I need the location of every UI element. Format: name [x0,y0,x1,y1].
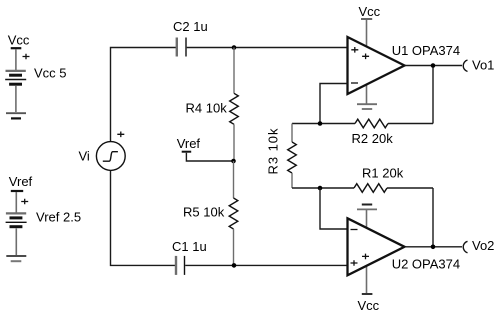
wire top rail (C2 to U1 +in) [187,47,348,49]
svg-text:Vref: Vref [9,174,33,189]
svg-text:Vo2: Vo2 [472,238,494,253]
svg-text:R5 10k: R5 10k [183,205,225,220]
resistor R1 20k [354,184,387,193]
ground (U2 negative supply, inverted) [357,205,377,231]
capacitor C2 1u [177,38,186,57]
battery V1 Vcc 5 [5,54,29,112]
net label Vcc (U1) [359,4,381,19]
junction node top (C2/R4/U1+) [232,45,237,50]
svg-text:R3 10k: R3 10k [266,128,281,175]
junction node Vo1 [431,63,436,68]
terminal bar Vcc (left supply) [11,48,22,70]
junction node Vref (R4/R5) [231,159,236,164]
label C2 1u [173,19,208,34]
wire U2 -in jog [320,188,348,229]
label R1 20k [362,166,404,181]
terminal bar Vref (left supply) [11,191,23,213]
svg-text:Vcc: Vcc [8,33,30,48]
wire bottom rail (C1 to U2 +in) [185,264,347,266]
svg-text:Vo1: Vo1 [472,58,494,73]
label R2 20k [352,131,394,146]
label U1 OPA374 [392,43,460,58]
terminal Vo2 [463,241,467,253]
svg-text:Vcc: Vcc [358,298,380,313]
terminal Vo1 [463,60,467,72]
op-amp U1 OPA374 [348,37,405,94]
svg-text:Vcc 5: Vcc 5 [34,66,67,81]
label R5 10k [183,205,225,220]
label V1 value Vcc 5 [34,66,67,81]
terminal Vref (mid node) [182,152,234,161]
wire U1 -in jog [320,84,348,124]
junction node FB1 (R2/R3/U1-) [318,121,323,126]
op-amp U2 OPA374 [348,218,405,275]
label Vo1 [472,58,494,73]
resistor R5 10k [229,161,238,265]
svg-text:U1 OPA374: U1 OPA374 [392,43,460,58]
power pin Vcc (U1 top) [361,19,372,50]
label R4 10k [186,101,228,116]
label R3 10k (rotated) [266,128,281,175]
power pin Vcc (U2 bottom) [362,263,373,294]
resistor R4 10k [230,48,239,162]
svg-text:R1 20k: R1 20k [362,166,404,181]
label Vi [79,149,90,164]
capacitor C1 1u [176,256,185,275]
svg-text:U2 OPA374: U2 OPA374 [392,257,460,272]
junction node bottom (C1/R5/U2+) [232,263,237,268]
ground (U1 negative supply) [357,82,377,110]
label U2 OPA374 [392,257,460,272]
svg-text:R4 10k: R4 10k [186,101,228,116]
label V2 value Vref 2.5 [36,210,81,225]
svg-text:R2 20k: R2 20k [352,131,394,146]
junction node FB2 (R1/R3/U2-) [318,186,323,191]
label Vo2 [472,238,494,253]
svg-text:Vi: Vi [79,149,90,164]
wire U2 output [405,246,463,248]
ground (below V1) [6,113,26,118]
resistor R3 10k [288,124,297,189]
net label Vref (mid node) [177,136,201,151]
label C1 1u [172,239,207,254]
svg-text:C2 1u: C2 1u [173,19,208,34]
battery V2 Vref 2.5 [6,199,29,255]
wire U1 output [405,65,463,67]
wire left rail (bottom, Vi to C1 row) [111,170,177,265]
svg-text:Vcc: Vcc [359,4,381,19]
ground (below V2) [6,256,26,261]
svg-text:Vref: Vref [177,136,201,151]
net label Vref (left supply top) [9,174,33,189]
source VG1 Vi [96,132,125,171]
net label Vcc (U2) [358,298,380,313]
resistor R2 20k [355,119,388,128]
svg-text:C1 1u: C1 1u [172,239,207,254]
wire R1 feedback row [292,188,433,247]
net label Vcc (left supply top) [8,33,30,48]
svg-text:Vref 2.5: Vref 2.5 [36,210,81,225]
wire R2 feedback row [292,66,433,124]
wire left rail (top, Vi to C2 row) [111,48,177,143]
junction node Vo2 [431,245,436,250]
